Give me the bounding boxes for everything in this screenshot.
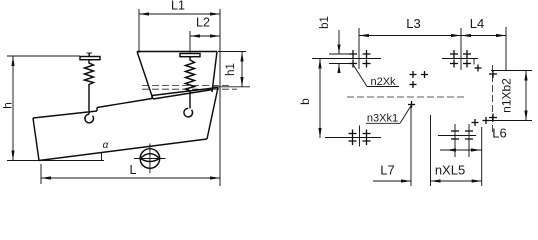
dimension b [298,59,322,139]
top-left hole group (n2Xk) [349,50,371,68]
dimension h1 [213,52,250,88]
hopper outline [137,52,217,100]
dimension L6 [440,126,507,152]
angle alpha [102,140,109,161]
right suspension: mount plate [180,54,200,57]
right hook [184,108,193,117]
left hook [85,114,94,123]
trough body outline [33,88,218,161]
right extension line (L1/L2/L common) [219,9,221,186]
dimension h [1,56,105,161]
svg-text:L: L [130,163,137,177]
svg-text:b: b [298,98,312,105]
svg-text:L4: L4 [470,16,484,31]
top-right hole group [450,50,471,68]
left hanger rod [88,86,90,114]
dimension b2 (n1Xb2) [488,71,532,121]
right edge dashed hole line [492,65,494,133]
bottom-left cluster centre lines [325,137,381,139]
top-left hole row lines [329,53,357,55]
left spring [85,60,94,86]
body corner tick [473,59,475,65]
svg-text:n3Xk1: n3Xk1 [367,113,398,125]
mid continuation holes [410,71,429,88]
dimension b1 [319,16,341,73]
svg-text:nXL5: nXL5 [435,163,465,178]
plan centre dashed line [347,96,467,98]
vibrator motor circle [134,144,166,174]
right spring [186,57,195,93]
label n2Xk with leader [353,65,399,89]
bottom-left hole group (n3Xk1) [349,130,371,146]
dimension L3 [359,16,461,70]
dimension L7 [373,105,411,187]
leader target hole [408,101,415,108]
dimension L [41,163,220,184]
left suspension: mount plate [80,53,100,60]
plan body top edge [312,58,381,60]
svg-text:L2: L2 [196,16,210,30]
dimension nXL5 [431,115,482,186]
svg-text:n2Xk: n2Xk [370,76,396,88]
dimension L2 [190,16,220,54]
svg-text:h1: h1 [225,63,237,76]
svg-text:α: α [103,140,109,151]
svg-text:L3: L3 [406,16,420,31]
bottom-right cluster centre lines [438,135,476,137]
svg-text:L1: L1 [171,0,185,13]
svg-text:h: h [1,102,15,109]
svg-text:b1: b1 [319,16,331,29]
hidden hopper bottom (dashed) [142,85,230,87]
dimension L4 [461,16,506,70]
label n3Xk1 with leader [366,105,412,125]
svg-text:n1Xb2: n1Xb2 [500,78,514,113]
dimension L1 [139,0,220,53]
svg-text:L6: L6 [492,126,506,141]
bottom-right hole group [451,131,473,139]
svg-text:L7: L7 [380,163,394,178]
right hanger rod [189,93,191,109]
right edge holes [472,65,498,127]
